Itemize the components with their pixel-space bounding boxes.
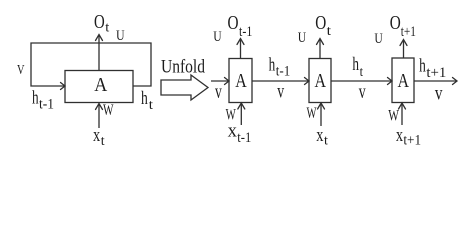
svg-text:t: t xyxy=(327,24,332,39)
arrowhead output cell 1 xyxy=(237,39,244,45)
svg-text:W: W xyxy=(388,107,399,124)
svg-text:U: U xyxy=(213,29,222,45)
svg-text:O: O xyxy=(315,12,326,34)
svg-text:U: U xyxy=(116,28,125,44)
arrowhead into cell 1 xyxy=(225,78,230,85)
svg-text:A: A xyxy=(398,70,410,92)
output arrow cell 3 wire xyxy=(403,41,405,59)
input arrow folded (W) wire xyxy=(98,105,100,129)
svg-text:v: v xyxy=(359,79,366,103)
W arrow cell 1 wire xyxy=(240,104,242,125)
svg-text:x: x xyxy=(228,121,238,142)
svg-text:O: O xyxy=(228,12,239,34)
wire h_t cell2 to cell3 xyxy=(331,80,391,82)
output arrow cell 2 wire xyxy=(319,40,321,59)
svg-text:W: W xyxy=(103,102,114,119)
output arrow folded (U) wire xyxy=(98,36,100,71)
svg-text:v: v xyxy=(277,79,284,103)
arrowhead output cell 3 xyxy=(400,40,407,46)
svg-text:h: h xyxy=(419,55,426,76)
box A cell 2 xyxy=(309,59,331,103)
svg-text:h: h xyxy=(269,54,276,75)
arrowhead into cell 2 xyxy=(305,78,310,85)
svg-text:t: t xyxy=(101,134,105,149)
arrowhead h_t+1 out xyxy=(453,78,458,85)
svg-text:O: O xyxy=(94,11,105,33)
arrowhead into cell 3 xyxy=(388,78,393,85)
unfold block arrow xyxy=(161,75,208,100)
svg-text:t-1: t-1 xyxy=(239,24,252,40)
svg-text:A: A xyxy=(94,74,107,96)
svg-text:h: h xyxy=(32,87,39,108)
svg-text:A: A xyxy=(235,70,247,92)
svg-text:x: x xyxy=(316,125,324,146)
arrowhead into box A folded xyxy=(61,83,66,90)
svg-text:t-1: t-1 xyxy=(276,64,290,80)
output arrow cell 1 wire xyxy=(240,40,242,59)
svg-text:x: x xyxy=(93,125,101,146)
box A cell 1 xyxy=(229,59,252,103)
arrowhead output folded xyxy=(96,35,103,41)
wire h_t-1 cell1 to cell2 xyxy=(252,80,308,82)
svg-text:A: A xyxy=(315,70,327,92)
box A folded xyxy=(65,71,133,103)
svg-text:t+1: t+1 xyxy=(426,65,446,81)
svg-text:t-1: t-1 xyxy=(237,130,251,146)
arrowhead W cell 3 xyxy=(399,103,406,109)
svg-text:t: t xyxy=(324,134,328,149)
arrowhead output cell 2 xyxy=(317,39,324,45)
svg-text:t-1: t-1 xyxy=(39,97,54,113)
arrowhead W folded xyxy=(96,104,103,110)
svg-text:h: h xyxy=(141,88,148,109)
svg-text:t: t xyxy=(105,21,109,36)
svg-text:v: v xyxy=(435,80,443,104)
svg-text:U: U xyxy=(374,31,383,47)
svg-text:V: V xyxy=(17,63,25,78)
W arrow cell 3 wire xyxy=(401,104,403,125)
svg-text:U: U xyxy=(298,30,307,46)
svg-text:t+1: t+1 xyxy=(403,132,421,148)
input wire into cell 1 xyxy=(211,80,228,82)
svg-text:O: O xyxy=(390,12,401,34)
box A cell 3 xyxy=(392,58,414,103)
svg-text:W: W xyxy=(307,105,318,122)
recurrent loop wire V xyxy=(31,43,151,86)
svg-text:x: x xyxy=(396,125,404,146)
svg-text:Unfold: Unfold xyxy=(161,56,205,77)
svg-text:h: h xyxy=(352,54,359,75)
svg-text:t: t xyxy=(360,65,363,80)
wire h_t+1 out of cell 3 xyxy=(414,80,456,82)
svg-text:v: v xyxy=(215,79,222,103)
W arrow cell 2 wire xyxy=(320,104,322,126)
svg-text:t: t xyxy=(149,98,153,113)
arrowhead W cell 2 xyxy=(318,103,325,109)
svg-text:t+1: t+1 xyxy=(401,24,416,40)
arrowhead W cell 1 xyxy=(238,103,245,109)
